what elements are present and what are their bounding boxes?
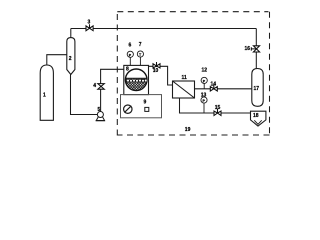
enclosure 19 dashed box bbox=[117, 12, 269, 136]
wire right downcomer bbox=[255, 29, 257, 69]
svg-text:18: 18 bbox=[253, 113, 259, 119]
gauge 6 bbox=[127, 51, 133, 65]
cabinet box 9 bbox=[121, 95, 162, 118]
svg-text:16: 16 bbox=[245, 46, 251, 52]
valve 10 bbox=[153, 62, 160, 68]
wire top feed line bbox=[71, 28, 256, 30]
gas cylinder 1 bbox=[40, 65, 53, 120]
pump 5 bbox=[96, 112, 105, 121]
svg-text:2: 2 bbox=[69, 56, 72, 62]
valve 4 bbox=[98, 84, 105, 90]
wire cylinder top stub bbox=[47, 55, 67, 65]
svg-text:3: 3 bbox=[88, 20, 91, 26]
svg-text:10: 10 bbox=[153, 68, 159, 74]
valve 3 bbox=[86, 24, 93, 30]
svg-text:6: 6 bbox=[129, 43, 132, 49]
dryer column 2 bbox=[67, 38, 75, 75]
svg-text:5: 5 bbox=[98, 107, 101, 113]
wire column downcomer to pump bbox=[71, 75, 98, 115]
fan symbol bbox=[124, 105, 132, 113]
collector 18 bbox=[251, 111, 266, 126]
svg-text:15: 15 bbox=[215, 105, 221, 111]
furnace bath circle bbox=[125, 69, 148, 91]
wire pump to valve 4 to furnace bbox=[101, 69, 124, 111]
svg-text:11: 11 bbox=[182, 75, 188, 81]
svg-text:1: 1 bbox=[43, 93, 46, 99]
svg-text:4: 4 bbox=[93, 83, 96, 89]
svg-text:12: 12 bbox=[202, 68, 208, 74]
svg-text:9: 9 bbox=[144, 99, 147, 105]
wire flowmeter to vessel 17 bbox=[195, 88, 252, 90]
valve 15 bbox=[214, 109, 221, 116]
svg-text:19: 19 bbox=[185, 127, 191, 133]
gauge 7 bbox=[137, 51, 143, 66]
svg-text:13: 13 bbox=[201, 92, 207, 98]
wire column top to line bbox=[70, 29, 72, 38]
valve 14 bbox=[210, 85, 217, 91]
gauge 13 bbox=[201, 97, 207, 113]
svg-text:7: 7 bbox=[139, 42, 142, 48]
wire flowmeter bottom to collector bbox=[180, 98, 251, 113]
gauge 12 bbox=[201, 77, 207, 89]
vessel 17 bbox=[252, 69, 263, 107]
svg-text:14: 14 bbox=[211, 81, 217, 87]
wire furnace outlet to flowmeter bbox=[149, 66, 173, 85]
valve 16 bbox=[251, 46, 259, 52]
svg-text:17: 17 bbox=[254, 86, 260, 92]
furnace box 8 bbox=[124, 65, 149, 94]
switch square bbox=[145, 107, 149, 111]
flowmeter 11 bbox=[173, 81, 195, 98]
